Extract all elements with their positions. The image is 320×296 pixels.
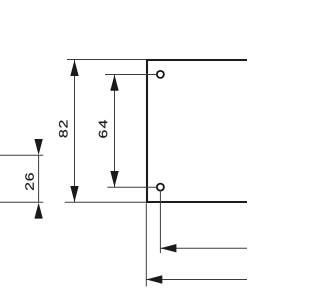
dimension line 26 (38, 155, 40, 202)
arrowhead 82 bottom (70, 186, 78, 202)
extension line from panel top edge (67, 59, 146, 61)
dimension line 82 (74, 60, 76, 202)
extension line from panel bottom edge (65, 201, 146, 203)
hole H2 (bottom mounting hole) (157, 184, 164, 191)
hole H1 (top mounting hole) (157, 71, 164, 78)
arrowhead 82 top (70, 60, 78, 76)
arrowhead 64 bottom (110, 171, 118, 187)
extension line below panel left edge (145, 203, 147, 286)
arrowhead horizontal dim 1 (pointing left) (160, 244, 176, 252)
extension line lower-left (from cropped feature) (0, 201, 43, 203)
label 64 (99, 120, 108, 138)
extension line from hole H1 (105, 74, 156, 76)
extension line below hole H2 (159, 192, 161, 253)
horizontal dimension line to panel left edge (value cropped at right) (146, 279, 247, 281)
horizontal dimension line to hole H2 (value cropped at right) (160, 247, 247, 249)
arrowhead horizontal dim 2 (pointing left) (146, 275, 162, 283)
label 26 (25, 173, 34, 190)
extension line from hole H2 (107, 186, 156, 188)
panel outline (front plate, cropped at right edge) (147, 60, 247, 202)
arrowhead 26 bottom (outside, pointing up) (34, 203, 42, 219)
extension line upper-left (from cropped feature) (0, 154, 43, 156)
arrowhead 26 top (outside, pointing down) (34, 139, 42, 155)
arrowhead 64 top (110, 75, 118, 91)
label 82 (59, 120, 68, 137)
dimension line 64 (114, 75, 116, 187)
